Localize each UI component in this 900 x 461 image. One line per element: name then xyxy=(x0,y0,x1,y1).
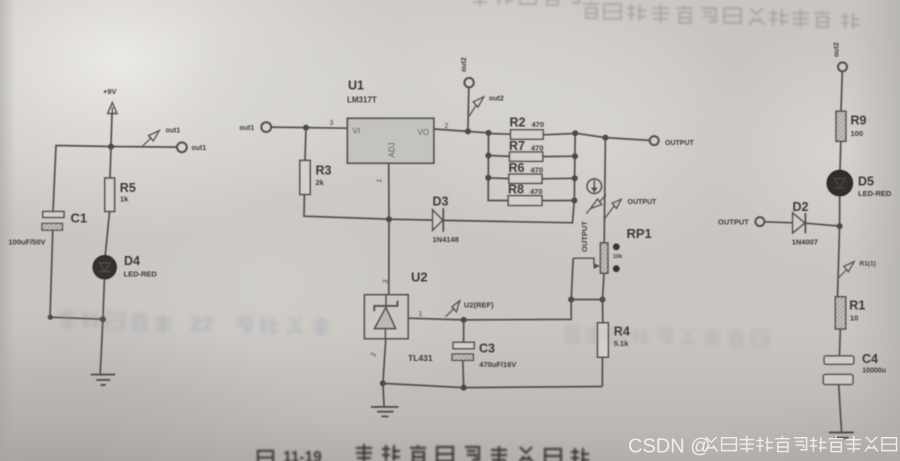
resistor R6 xyxy=(509,161,575,183)
resistor R4 xyxy=(598,323,630,357)
svg-text:1k: 1k xyxy=(120,195,129,204)
svg-text:R3: R3 xyxy=(316,164,332,178)
wire D3 to right rail xyxy=(443,201,574,223)
svg-text:10: 10 xyxy=(850,314,858,323)
terminal out1 (U1 input) xyxy=(240,122,272,132)
resistor bank left rail xyxy=(488,133,508,201)
svg-text:5.1k: 5.1k xyxy=(614,339,629,348)
resistor R1 xyxy=(835,297,865,329)
svg-text:D4: D4 xyxy=(124,254,140,268)
wire junction down to RP1 xyxy=(604,138,605,243)
wire +9V down to node xyxy=(111,114,112,147)
svg-text:CSDN @: CSDN @ xyxy=(628,436,711,458)
svg-text:R1: R1 xyxy=(849,299,865,313)
wire out1 to U1 VI xyxy=(271,127,347,128)
svg-text:OUTPUT: OUTPUT xyxy=(718,217,749,226)
junction D2 node xyxy=(837,223,843,229)
flag out1 (left) xyxy=(143,128,181,146)
svg-text:1N4148: 1N4148 xyxy=(433,235,459,244)
diode D2 1N4007 xyxy=(792,200,818,247)
wire bottom rail xyxy=(383,383,602,387)
junction RP1 branch xyxy=(602,135,608,141)
junction node left xyxy=(108,144,114,150)
svg-text:LED-RED: LED-RED xyxy=(124,270,158,279)
ground (U2) xyxy=(371,407,399,417)
svg-text:2k: 2k xyxy=(316,178,325,187)
wire node to R1 xyxy=(838,226,840,297)
svg-text:10k: 10k xyxy=(613,254,623,260)
caption (clipped at bottom) xyxy=(258,444,589,461)
svg-text:OUTPUT: OUTPUT xyxy=(665,140,695,147)
svg-text:R5: R5 xyxy=(120,181,136,195)
resistor R8 xyxy=(508,183,574,206)
svg-text:D2: D2 xyxy=(793,200,809,214)
bleed-through text mid right xyxy=(564,325,768,346)
wire D5 to node xyxy=(839,196,841,226)
svg-text:R7: R7 xyxy=(509,139,525,153)
svg-text:LM317T: LM317T xyxy=(347,96,377,105)
svg-text:U2: U2 xyxy=(411,270,428,285)
wire R4 to bottom rail xyxy=(601,357,603,386)
ground (left) xyxy=(91,375,115,385)
wire RP1 to R4 xyxy=(603,273,605,323)
LED D4 xyxy=(93,254,157,279)
svg-text:470: 470 xyxy=(531,166,544,175)
bleed-through text mid left xyxy=(58,309,330,337)
wire link to RP1 bottom xyxy=(571,299,602,301)
terminal OUTPUT (top) xyxy=(650,136,695,147)
bleed-through text top right xyxy=(472,0,859,29)
wire R5 to D4 xyxy=(105,212,109,256)
svg-text:U2(REF): U2(REF) xyxy=(464,301,494,310)
wire OUTPUT to D2 xyxy=(764,222,792,223)
wire node to ground xyxy=(100,319,103,374)
resistor R5 xyxy=(105,178,136,212)
svg-text:out2: out2 xyxy=(834,42,841,57)
terminal out2 (top) xyxy=(461,57,474,87)
junction U2 bottom xyxy=(380,380,386,386)
ground (right) xyxy=(829,433,854,438)
svg-text:3: 3 xyxy=(330,120,334,127)
svg-text:R2: R2 xyxy=(510,116,526,130)
svg-text:1: 1 xyxy=(419,311,423,318)
svg-text:R1(1): R1(1) xyxy=(860,260,876,267)
svg-text:RP1: RP1 xyxy=(627,226,652,241)
capacitor C4 xyxy=(823,352,886,385)
svg-text:100: 100 xyxy=(851,129,864,138)
wire node to C1 top corner xyxy=(53,146,111,212)
wire C4 to ground xyxy=(839,385,842,432)
svg-text:C4: C4 xyxy=(862,352,878,366)
resistor bank right rail xyxy=(573,133,576,200)
capacitor C1 xyxy=(8,211,87,247)
svg-text:out2: out2 xyxy=(489,96,504,103)
IC U2 TL431 xyxy=(364,270,432,364)
wire C1 down to corner xyxy=(50,230,53,317)
wire R1 to C4 xyxy=(839,329,842,356)
diode D3 1N4148 xyxy=(389,195,459,245)
wire out2 stub xyxy=(467,87,470,131)
wiper arrow RP1 xyxy=(573,258,600,269)
svg-text:out1: out1 xyxy=(192,145,207,152)
flag OUTPUT (horizontal) xyxy=(604,199,657,220)
wire U2 ref to RP1 link xyxy=(408,300,571,320)
junction R3 top xyxy=(303,125,309,131)
resistor R3 xyxy=(300,160,332,194)
wire rail to OUTPUT terminal xyxy=(575,133,650,140)
svg-text:VO: VO xyxy=(418,128,430,137)
junction bottom node xyxy=(100,316,106,322)
flag R1(1) xyxy=(839,260,876,277)
svg-text:22: 22 xyxy=(190,313,213,336)
resistor R7 xyxy=(509,139,575,161)
flag out2 xyxy=(469,96,504,117)
flag OUTPUT (rotated) xyxy=(580,195,606,252)
resistor R2 xyxy=(489,116,576,140)
junction dots left rail xyxy=(485,130,491,181)
svg-text:2: 2 xyxy=(445,123,449,130)
probe icon OUTPUT xyxy=(587,179,602,194)
svg-text:ADJ: ADJ xyxy=(388,142,397,157)
svg-text:R4: R4 xyxy=(614,325,630,339)
svg-text:470: 470 xyxy=(532,120,545,129)
junction out2 stub xyxy=(465,128,471,134)
svg-text:11-19: 11-19 xyxy=(283,449,322,461)
svg-text:C1: C1 xyxy=(71,211,88,226)
potentiometer RP1 xyxy=(600,226,651,273)
terminal out2 (right) xyxy=(834,42,848,71)
capacitor C3 xyxy=(452,320,516,388)
terminal out1 (left) xyxy=(177,142,206,152)
svg-text:10000u: 10000u xyxy=(862,367,886,374)
svg-text:1N4007: 1N4007 xyxy=(792,238,818,247)
svg-text:R6: R6 xyxy=(509,161,525,175)
svg-text:470: 470 xyxy=(531,144,544,153)
wire R3 bottom to ADJ node xyxy=(304,195,389,220)
watermark CSDN @company xyxy=(628,436,897,458)
junction C3 bottom xyxy=(461,385,467,391)
junction bottom left corner xyxy=(48,315,53,320)
terminal OUTPUT (left of D2) xyxy=(718,217,764,226)
svg-text:OUTPUT: OUTPUT xyxy=(580,221,589,252)
LED D5 xyxy=(827,170,892,198)
svg-text:R9: R9 xyxy=(851,114,867,128)
svg-text:LED-RED: LED-RED xyxy=(858,189,892,198)
svg-text:D5: D5 xyxy=(858,175,874,189)
svg-text:VI: VI xyxy=(353,127,361,136)
wire node to out1 terminal xyxy=(111,146,177,149)
svg-text:470uF/16V: 470uF/16V xyxy=(479,360,516,369)
svg-text:out1: out1 xyxy=(240,125,255,132)
junction dots right rail xyxy=(571,130,578,203)
junction ADJ node xyxy=(386,216,392,222)
wire ADJ vertical xyxy=(388,163,390,295)
wire out2 to R9 xyxy=(841,71,842,111)
wire U2 cathode down xyxy=(383,339,386,406)
svg-text:TL431: TL431 xyxy=(408,353,433,363)
svg-text:+9V: +9V xyxy=(103,87,117,96)
wire D4 to bottom node xyxy=(103,279,105,319)
svg-text:D3: D3 xyxy=(433,195,449,209)
flag U2(REF) xyxy=(446,301,495,317)
svg-text:out1: out1 xyxy=(166,128,181,135)
wire R3 branch xyxy=(305,128,306,161)
resistor R9 xyxy=(836,111,867,141)
svg-text:470: 470 xyxy=(530,187,543,196)
left rail stubs xyxy=(488,156,509,179)
wire R9 to D5 xyxy=(839,141,842,170)
junction RP1 bottom xyxy=(600,297,606,303)
svg-text:100uF/50V: 100uF/50V xyxy=(8,238,45,247)
wire VO to rail xyxy=(434,129,489,133)
svg-text:out2: out2 xyxy=(461,57,468,72)
svg-text:C3: C3 xyxy=(479,342,495,356)
wire corner to bottom node xyxy=(50,317,103,319)
wire node down to R5 xyxy=(110,147,111,179)
junction wiper link xyxy=(568,297,574,303)
junction C3 top xyxy=(461,317,467,323)
power flag +9V xyxy=(103,87,117,114)
svg-text:OUTPUT: OUTPUT xyxy=(628,199,658,206)
svg-text:R8: R8 xyxy=(508,183,524,197)
op IC U1 LM317T xyxy=(347,79,434,164)
svg-text:U1: U1 xyxy=(348,79,364,93)
wire wiper link down xyxy=(571,258,573,299)
wire D2 to node xyxy=(805,223,839,226)
